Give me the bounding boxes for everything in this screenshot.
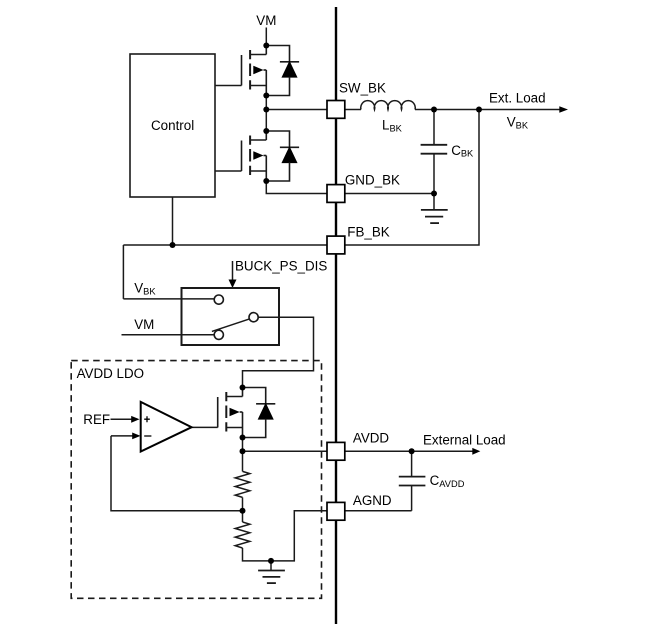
inductor LBK (361, 101, 415, 110)
BUCK_PS_DIS control arrow (229, 261, 237, 288)
node: CBK ground junction (431, 191, 437, 197)
wire: gate lead of Q1 from control (215, 85, 242, 87)
wire: AVDD node to AVDD pin (243, 450, 328, 452)
wire: Q2 source down and right to GND_BK pin (266, 181, 327, 194)
power-save switch box (182, 288, 280, 345)
transistor Q3: LDO pass MOSFET (218, 388, 243, 438)
svg-text:VBK: VBK (134, 281, 156, 297)
resistor R2 (divider bottom) (235, 522, 250, 548)
wire: op-amp inverting input feedback (111, 436, 243, 511)
node: LBK/CBK junction (431, 107, 437, 113)
node: AVDD output (240, 448, 246, 454)
wire: VBK branch down to switch input (122, 245, 124, 299)
svg-text:Control: Control (151, 118, 194, 133)
node: Q1 source (263, 93, 269, 99)
inverting input arrow (111, 433, 141, 440)
svg-text:AVDD: AVDD (353, 430, 390, 445)
body diode of Q1 (266, 46, 299, 96)
pin AGND (327, 502, 345, 520)
node: Q2 drain (263, 128, 269, 134)
node: feedback tap at control (170, 242, 176, 248)
svg-text:BUCK_PS_DIS: BUCK_PS_DIS (235, 259, 327, 274)
pin SW_BK (327, 101, 345, 119)
node: CAVDD / external load (409, 448, 415, 454)
svg-text:REF: REF (83, 412, 110, 427)
wire: between divider resistors (242, 497, 244, 522)
wire: VM supply stem to Q1 drain (265, 28, 267, 46)
wire: CBK bottom stem (433, 154, 435, 194)
wire: Q1 source to Q2 drain (switch node trunk) (265, 96, 267, 132)
svg-text:External Load: External Load (423, 432, 506, 447)
wire: AVDD pin to external load arrow (345, 450, 473, 452)
wire: op-amp output to Q3 gate (192, 426, 218, 428)
svg-text:AGND: AGND (353, 493, 392, 508)
svg-text:VBK: VBK (507, 115, 529, 131)
wire: feedback rail at y=245 (left of IC line) (123, 244, 327, 246)
svg-text:VM: VM (134, 317, 154, 332)
wire: inductor to external load arrow (415, 109, 479, 111)
node: VBK output / FB junction (476, 107, 482, 113)
AVDD LDO dashed enclosure (71, 361, 321, 599)
wire: GND_BK pin to CBK bottom node (345, 193, 434, 195)
op-amp U1 (error amplifier) (141, 402, 192, 452)
body diode of Q2 (266, 131, 299, 181)
body diode of Q3 (243, 388, 276, 438)
wire: SW_BK pin to inductor (345, 109, 361, 111)
transistor Q2: low-side buck MOSFET (241, 131, 266, 181)
svg-text:CAVDD: CAVDD (430, 473, 465, 489)
wire: AGND pin to CAVDD bottom (345, 510, 412, 512)
node: Q2 source (263, 178, 269, 184)
svg-text:FB_BK: FB_BK (347, 224, 389, 239)
wire: switch node to SW_BK pin (266, 109, 327, 111)
node: LDO ground (268, 558, 274, 564)
svg-text:GND_BK: GND_BK (345, 173, 400, 188)
resistor R1 (divider top) (235, 471, 250, 497)
switch contact: common output (249, 313, 258, 322)
svg-text:VM: VM (256, 13, 276, 28)
arrow: Ext. Load output (479, 106, 568, 113)
node: Q3 source (240, 435, 246, 441)
transistor Q1: high-side buck MOSFET (241, 46, 266, 96)
switch lever (212, 319, 250, 332)
IC boundary line (335, 7, 337, 624)
svg-text:SW_BK: SW_BK (339, 81, 386, 96)
pin FB_BK (327, 236, 345, 254)
wire: VBK into switch contact (123, 298, 214, 300)
svg-text:AVDD LDO: AVDD LDO (77, 366, 144, 381)
svg-text:Ext. Load: Ext. Load (489, 90, 546, 105)
node: switch node to SW_BK (263, 107, 269, 113)
node: Q3 drain (240, 385, 246, 391)
wire: CBK top stem (433, 110, 435, 145)
switch contact: VBK (214, 295, 223, 304)
capacitor CAVDD (399, 477, 426, 486)
wire: Q3 source to resistor divider top (242, 438, 244, 472)
wire: CAVDD top stem (411, 451, 413, 476)
svg-text:LBK: LBK (382, 118, 403, 134)
wire: control block bottom stem (172, 197, 174, 245)
wire: divider bottom to LDO ground (243, 511, 328, 561)
arrow: External Load output (472, 448, 480, 455)
wire: switch output to LDO pass FET drain (243, 317, 314, 387)
pin AVDD (327, 442, 345, 460)
node: divider midpoint (240, 508, 246, 514)
wire: VM into switch contact (122, 334, 215, 336)
switch contact: VM (214, 330, 223, 339)
pin GND_BK (327, 185, 345, 203)
svg-text:CBK: CBK (451, 143, 474, 159)
capacitor CBK (421, 145, 448, 154)
wire: CAVDD bottom stem (411, 486, 413, 511)
ground symbol (buck output) (421, 194, 448, 224)
REF input arrow (111, 416, 140, 423)
wire: gate lead of Q2 from control (215, 170, 242, 172)
ground symbol (LDO) (258, 561, 285, 583)
node: Q1 drain / VM (263, 43, 269, 49)
wire: FB_BK pin right and up to VBK node (345, 110, 479, 246)
control block (130, 54, 215, 197)
